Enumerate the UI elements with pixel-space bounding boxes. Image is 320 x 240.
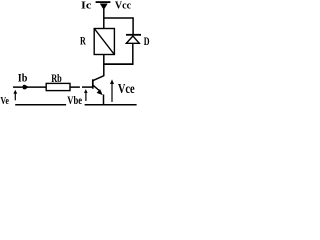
- svg-text:Rb: Rb: [51, 72, 62, 85]
- svg-text:Ic: Ic: [81, 0, 92, 12]
- svg-text:Ib: Ib: [18, 72, 28, 85]
- svg-text:Vce: Vce: [118, 81, 135, 96]
- svg-text:Vcc: Vcc: [115, 0, 131, 12]
- svg-text:Ve: Ve: [0, 95, 9, 107]
- svg-text:Vbe: Vbe: [67, 93, 82, 107]
- svg-text:R: R: [80, 35, 86, 48]
- svg-text:D: D: [144, 34, 150, 48]
